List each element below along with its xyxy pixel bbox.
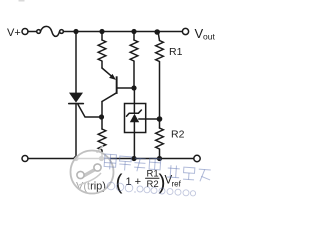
svg-text:out: out	[203, 32, 215, 42]
watermark text 电子产品世界	[104, 154, 211, 182]
wire gate resistor top	[101, 117, 103, 129]
wire emitter	[101, 62, 103, 69]
wire gate resistor bottom	[101, 151, 103, 159]
node bias-resistor top	[131, 29, 136, 34]
op-amp U1 TL431 box	[125, 104, 146, 133]
wire emitter resistor top	[101, 32, 103, 41]
circuit breaker CB1	[37, 26, 64, 36]
wire SCR cathode	[75, 104, 77, 159]
watermark url	[107, 182, 195, 196]
terminal bottom right	[194, 155, 200, 161]
svg-text:R1: R1	[169, 46, 183, 58]
resistor bias	[130, 40, 138, 61]
resistor R2	[156, 128, 164, 149]
label trip equation	[116, 169, 182, 195]
wire TL431 cathode	[133, 88, 135, 113]
label R1	[169, 46, 183, 58]
node SCR cathode rail	[73, 156, 78, 161]
zener inside U1	[127, 110, 142, 122]
resistor R1	[156, 41, 164, 62]
wire bottom rail	[28, 158, 194, 160]
resistor gate	[98, 129, 106, 150]
scan speck top edge	[19, 0, 25, 2]
thyristor SCR1	[69, 93, 99, 117]
wire R1 bottom	[159, 62, 161, 119]
transistor Q1 PNP	[102, 68, 133, 102]
node SCR anode	[73, 29, 78, 34]
wire bias to base node	[133, 62, 135, 89]
wire top rail	[63, 31, 182, 33]
node ref divider	[157, 116, 163, 122]
node base / TL431 cathode	[131, 85, 136, 90]
node R2 rail	[157, 156, 162, 161]
node gate resistor rail	[99, 156, 104, 161]
watermark logo circle	[70, 146, 115, 195]
node emitter-resistor top	[99, 29, 104, 34]
wire R1 top	[158, 32, 160, 41]
wire SCR anode drop	[75, 32, 77, 94]
terminal bottom left	[22, 156, 28, 162]
wire R2 top	[159, 119, 161, 128]
node R1 top	[154, 29, 160, 35]
wire SCR gate node	[99, 114, 104, 119]
label Vout	[195, 26, 216, 42]
wire	[28, 31, 37, 33]
wire bias resistor top	[133, 32, 135, 41]
node TL431 anode rail	[131, 156, 136, 161]
svg-text:R2: R2	[171, 129, 185, 141]
wire R2 bottom	[159, 150, 161, 159]
svg-text:ref: ref	[172, 180, 182, 189]
svg-text:V+: V+	[7, 27, 21, 39]
label R2	[171, 129, 185, 141]
terminal Vout	[182, 28, 188, 34]
resistor emitter	[98, 40, 106, 61]
terminal V+	[22, 29, 28, 35]
wire TL431 ref	[139, 118, 160, 120]
label V+	[7, 27, 21, 39]
wire collector	[101, 102, 103, 118]
wire TL431 anode	[133, 122, 135, 158]
